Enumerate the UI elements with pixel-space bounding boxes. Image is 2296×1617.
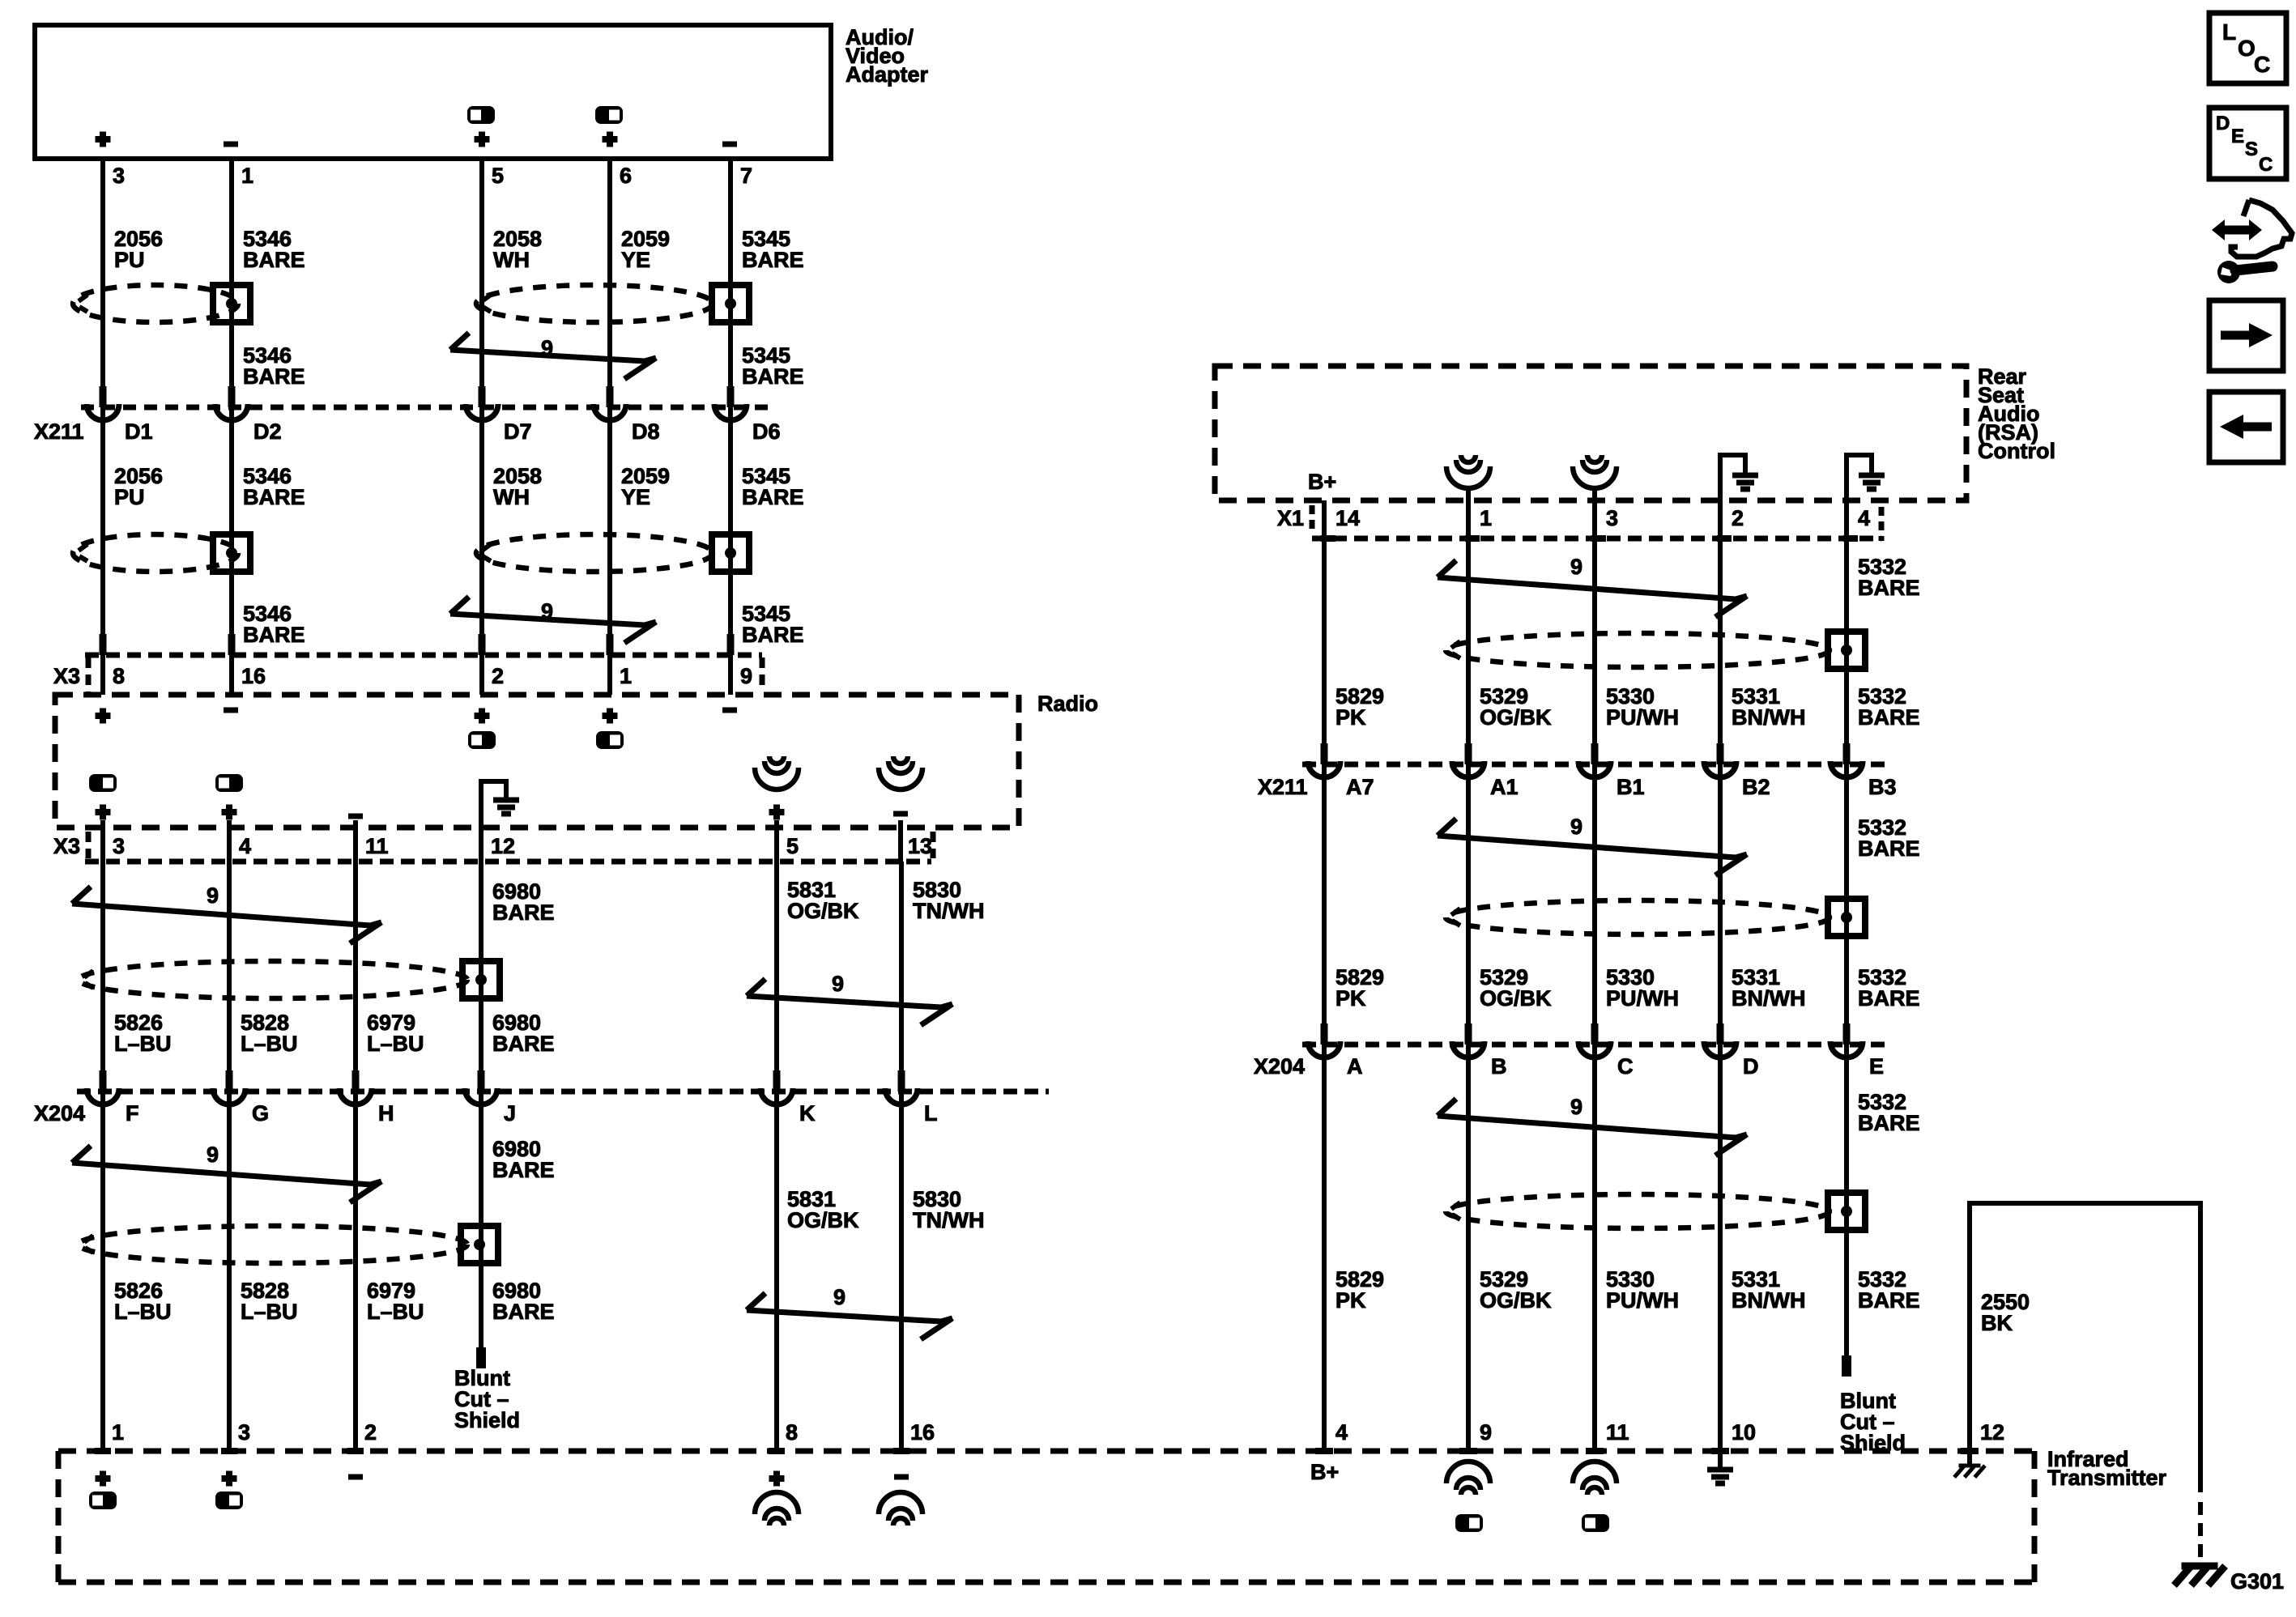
shield ellipse radio FGH row xyxy=(79,961,467,998)
svg-text:BARE: BARE xyxy=(742,364,804,389)
svg-text:L–BU: L–BU xyxy=(241,1032,298,1056)
svg-text:BARE: BARE xyxy=(243,623,305,647)
svg-text:C: C xyxy=(2259,154,2273,176)
component Infrared Transmitter dashed box bottom edge xyxy=(58,1580,2034,1585)
terminal - adapter pin 7 xyxy=(722,142,737,147)
svg-text:X3: X3 xyxy=(53,834,80,858)
svg-text:Control: Control xyxy=(1978,439,2055,463)
connector X211 right pin B3 cup xyxy=(1830,761,1863,777)
connector X3 top dashed line xyxy=(85,653,762,658)
terminal + radio X3 pin 2 xyxy=(475,709,490,724)
wire A X211 to X204 xyxy=(1322,764,1327,1045)
svg-text:14: 14 xyxy=(1335,506,1360,530)
wire D crossing tick at X1 xyxy=(1717,535,1732,542)
wire D X204 to IR box xyxy=(1718,1045,1723,1451)
wire H column X3 to X204 xyxy=(353,862,358,1091)
shield splice square on 6980 BARE row1 xyxy=(462,961,500,998)
svg-text:K: K xyxy=(799,1101,816,1126)
svg-text:9: 9 xyxy=(207,883,219,908)
svg-text:9: 9 xyxy=(833,1285,846,1309)
connector X3 top right bracket xyxy=(760,657,765,690)
wire H crossing tick at IR box xyxy=(347,1448,364,1454)
wire E X204 to blunt cut xyxy=(1844,1045,1849,1359)
wire D crossing tick at IR box xyxy=(1711,1448,1729,1454)
wire 753 adapter to X211 xyxy=(607,159,612,407)
wire 595 X211 to X3 xyxy=(479,407,484,655)
wire B crossing tick at X1 xyxy=(1465,535,1480,542)
svg-text:9: 9 xyxy=(207,1143,219,1167)
svg-text:10: 10 xyxy=(1732,1420,1756,1445)
wire 902 X211 to X3 xyxy=(728,407,733,655)
svg-text:X204: X204 xyxy=(1254,1054,1305,1079)
wire 127 adapter to X211 xyxy=(100,159,105,407)
svg-text:2: 2 xyxy=(1732,506,1744,530)
svg-text:11: 11 xyxy=(365,834,389,858)
chassis ground G301 xyxy=(2182,1563,2218,1570)
svg-text:A1: A1 xyxy=(1490,775,1519,799)
terminal + adapter pin 5 xyxy=(475,132,490,147)
svg-text:3: 3 xyxy=(1606,506,1618,530)
connector X204 pin J cup xyxy=(465,1088,497,1104)
svg-text:E: E xyxy=(2231,126,2244,147)
speaker polarity icon IR pin 9 xyxy=(1455,1514,1483,1532)
wire 595 adapter to X211 xyxy=(479,159,484,407)
legend LOC box xyxy=(2209,13,2286,83)
speaker polarity icon IR pin 11 xyxy=(1582,1514,1609,1532)
svg-text:PU/WH: PU/WH xyxy=(1606,986,1679,1011)
wire stub X3 to radio box at 753 xyxy=(607,655,612,695)
svg-text:L–BU: L–BU xyxy=(114,1032,172,1056)
terminal + radio X3 pin 1 xyxy=(603,709,618,724)
svg-text:J: J xyxy=(504,1101,516,1126)
wire L column X204 to IR box xyxy=(899,1091,904,1451)
connector X204 pin L cup xyxy=(885,1088,918,1104)
svg-text:X1: X1 xyxy=(1277,506,1304,530)
shield splice square right row1 xyxy=(1828,632,1865,669)
wire crossing tick pin 12 xyxy=(1961,1448,1979,1454)
svg-text:D8: D8 xyxy=(632,419,660,444)
legend forward arrow box xyxy=(2209,300,2283,371)
wire C X211 to X204 xyxy=(1592,764,1597,1045)
svg-text:L–BU: L–BU xyxy=(114,1300,172,1324)
connector X211 pin D8 cup xyxy=(594,404,626,420)
wire 127 X211 to X3 xyxy=(100,407,105,655)
wire stub X3 to radio box at 286 xyxy=(229,655,234,695)
svg-text:4: 4 xyxy=(1335,1420,1348,1445)
svg-text:BARE: BARE xyxy=(1858,705,1920,730)
connector X204 pin H cup xyxy=(339,1088,372,1104)
antenna symbol RSA pin 1 xyxy=(1461,455,1476,462)
svg-text:OG/BK: OG/BK xyxy=(787,1208,859,1232)
wire E crossing tick at X1 xyxy=(1843,535,1858,542)
wire B crossing tick at IR box xyxy=(1459,1448,1477,1454)
svg-text:9: 9 xyxy=(1570,555,1582,579)
svg-text:9: 9 xyxy=(832,972,844,996)
svg-text:D6: D6 xyxy=(752,419,781,444)
terminal - IR pin 2 xyxy=(348,1474,363,1480)
connector X1 right bracket xyxy=(1879,507,1885,541)
shield ellipse right row1 xyxy=(1446,633,1830,667)
wire 286 adapter to X211 xyxy=(229,159,234,407)
svg-text:16: 16 xyxy=(910,1420,935,1445)
svg-text:BARE: BARE xyxy=(1858,1111,1920,1135)
svg-text:TN/WH: TN/WH xyxy=(913,1208,984,1232)
terminal + radio pin 4 xyxy=(222,805,237,820)
connector X1 dashed line xyxy=(1312,536,1881,542)
svg-text:PK: PK xyxy=(1335,705,1366,730)
speaker polarity icon radio pin 1 xyxy=(596,731,624,749)
svg-text:O: O xyxy=(2238,36,2256,61)
shield ellipse row1 right trio xyxy=(476,285,713,322)
wire stub X3 to radio box at 127 xyxy=(100,655,105,695)
component Infrared Transmitter dashed box left edge xyxy=(56,1451,62,1582)
connector X211 pin D7 cup xyxy=(466,404,498,420)
wire G column X204 to IR box xyxy=(227,1091,232,1451)
shield ellipse right row3 xyxy=(1446,1194,1830,1228)
svg-text:4: 4 xyxy=(1858,506,1870,530)
svg-text:BARE: BARE xyxy=(742,248,804,272)
wire stub inside radio at 283 xyxy=(227,820,232,862)
terminal - radio X3 pin 9 xyxy=(722,708,737,713)
svg-text:BARE: BARE xyxy=(492,1032,555,1056)
wire A B+ RSA to X211 xyxy=(1322,500,1327,764)
svg-text:Adapter: Adapter xyxy=(846,62,929,87)
wire dashed drop to G301 xyxy=(2198,1502,2203,1560)
terminal - adapter pin 1 xyxy=(224,142,238,147)
connector X211 right pin B2 cup xyxy=(1704,761,1736,777)
svg-text:D2: D2 xyxy=(253,419,282,444)
connector X204 left dashed line xyxy=(77,1089,1049,1095)
svg-text:BARE: BARE xyxy=(492,1300,555,1324)
connector X3 top left bracket xyxy=(86,657,92,696)
svg-text:B+: B+ xyxy=(1310,1460,1339,1484)
svg-text:PU/WH: PU/WH xyxy=(1606,705,1679,730)
wire L column X3 to X204 xyxy=(899,862,904,1091)
svg-text:16: 16 xyxy=(241,664,266,688)
svg-text:B+: B+ xyxy=(1308,470,1336,494)
wire E X211 to X204 xyxy=(1844,764,1849,1045)
svg-text:X211: X211 xyxy=(1258,775,1308,799)
connector X211 right dashed line xyxy=(1302,762,1889,768)
wire 286 X211 to X3 xyxy=(229,407,234,655)
svg-text:OG/BK: OG/BK xyxy=(1480,986,1552,1011)
svg-text:L–BU: L–BU xyxy=(367,1300,424,1324)
speaker polarity icon IR pin 1 xyxy=(89,1491,117,1509)
wire D X211 to X204 xyxy=(1718,764,1723,1045)
svg-text:BK: BK xyxy=(1981,1311,2013,1335)
terminal + adapter pin 6 xyxy=(603,132,618,147)
svg-text:1: 1 xyxy=(620,664,632,688)
svg-text:YE: YE xyxy=(621,248,650,272)
svg-text:BARE: BARE xyxy=(243,248,305,272)
wire J column X3 to X204 xyxy=(479,862,483,1091)
legend DESC box xyxy=(2209,108,2286,179)
connector X204 right pin C cup xyxy=(1578,1041,1611,1057)
svg-text:Shield: Shield xyxy=(454,1408,520,1432)
wire stub inside radio at 127 xyxy=(100,820,105,862)
chassis ground at IR pin 12 xyxy=(1959,1464,1981,1468)
svg-text:X3: X3 xyxy=(53,664,80,688)
svg-text:S: S xyxy=(2245,138,2258,160)
svg-text:PU/WH: PU/WH xyxy=(1606,1288,1679,1313)
wire B RSA to X211 xyxy=(1466,490,1471,764)
shield splice square row1 on 5346 BARE xyxy=(213,285,250,322)
svg-text:9: 9 xyxy=(1570,1095,1582,1119)
svg-text:TN/WH: TN/WH xyxy=(913,899,984,923)
wire stub X3 to radio box at 595 xyxy=(479,655,484,695)
wire J column X204 to blunt cut xyxy=(479,1091,483,1351)
connector X204 pin G cup xyxy=(213,1088,245,1104)
svg-text:5: 5 xyxy=(492,164,504,188)
svg-text:3: 3 xyxy=(113,164,125,188)
svg-text:12: 12 xyxy=(1980,1420,2004,1445)
svg-text:BARE: BARE xyxy=(1858,1288,1920,1313)
svg-text:D7: D7 xyxy=(504,419,532,444)
terminal + radio pin 5 xyxy=(769,805,785,820)
wire L crossing tick at IR box xyxy=(893,1448,909,1454)
svg-text:X211: X211 xyxy=(34,419,84,444)
svg-text:BARE: BARE xyxy=(492,900,555,925)
connector X204 right dashed line xyxy=(1302,1042,1889,1048)
svg-text:7: 7 xyxy=(740,164,752,188)
connector X211 pin D1 cup xyxy=(87,404,119,420)
wire D RSA to X211 xyxy=(1718,538,1723,764)
legend diagnostic icon double arrow xyxy=(2223,226,2251,235)
svg-text:PK: PK xyxy=(1335,1288,1366,1313)
terminal + radio pin 3 xyxy=(96,805,111,820)
speaker polarity icon IR pin 3 xyxy=(215,1491,243,1509)
connector X204 right pin D cup xyxy=(1704,1041,1736,1057)
legend diagnostic icon part outline xyxy=(2231,200,2292,257)
wire G crossing tick at IR box xyxy=(221,1448,237,1454)
speaker polarity icon radio pin 2 xyxy=(468,731,496,749)
terminal + radio X3 pin 8 xyxy=(96,709,111,724)
svg-text:YE: YE xyxy=(621,485,650,509)
svg-text:BARE: BARE xyxy=(742,485,804,509)
terminal + IR pin 1 xyxy=(96,1471,111,1487)
antenna symbol radio pin 5 xyxy=(769,756,784,764)
shield ellipse row2 left pair xyxy=(73,534,238,572)
terminal + IR pin 8 xyxy=(769,1471,785,1487)
wire C crossing tick at IR box xyxy=(1586,1448,1604,1454)
shield ellipse row1 left pair xyxy=(73,285,238,322)
wire 2550 BK loop xyxy=(1970,1203,2200,1492)
wire K column X3 to X204 xyxy=(774,862,779,1091)
svg-text:C: C xyxy=(2254,52,2270,77)
svg-text:1: 1 xyxy=(241,164,253,188)
svg-text:5: 5 xyxy=(786,834,799,858)
terminal + IR pin 3 xyxy=(222,1471,237,1487)
connector X211 right pin A1 cup xyxy=(1452,761,1485,777)
wire E RSA to X211 xyxy=(1844,538,1849,764)
svg-text:BARE: BARE xyxy=(243,364,305,389)
wire B X211 to X204 xyxy=(1466,764,1471,1045)
svg-text:D: D xyxy=(2216,113,2230,134)
wire A crossing tick at IR box xyxy=(1315,1448,1333,1454)
svg-text:2: 2 xyxy=(364,1420,377,1445)
svg-text:9: 9 xyxy=(740,664,752,688)
ground symbol IR pin 10 xyxy=(1718,1451,1723,1469)
svg-text:H: H xyxy=(378,1101,394,1126)
component Radio dashed box xyxy=(55,695,1019,828)
antenna symbol IR pin 9 xyxy=(1461,1487,1476,1495)
svg-text:B1: B1 xyxy=(1617,775,1645,799)
svg-text:3: 3 xyxy=(238,1420,250,1445)
shield splice square row1 on 5345 BARE xyxy=(712,285,749,322)
svg-text:9: 9 xyxy=(1570,815,1582,839)
wire K column X204 to IR box xyxy=(774,1091,779,1451)
antenna symbol IR pin 11 xyxy=(1587,1487,1602,1495)
connector X204 pin F cup xyxy=(87,1088,119,1104)
wire stub X3 to radio box at 902 xyxy=(728,655,733,695)
connector X211 pin D6 cup xyxy=(714,404,747,420)
svg-text:D: D xyxy=(1743,1054,1759,1079)
svg-text:13: 13 xyxy=(908,834,932,858)
svg-text:L–BU: L–BU xyxy=(367,1032,424,1056)
shield splice square on 6980 BARE row2 xyxy=(461,1226,498,1263)
svg-text:A: A xyxy=(1347,1054,1363,1079)
connector X3 bottom right bracket xyxy=(931,832,936,858)
connector X211 right pin A7 cup xyxy=(1308,761,1340,777)
connector X3 bottom left bracket xyxy=(86,832,92,858)
connector X3 bottom dashed line xyxy=(85,859,931,865)
svg-text:BN/WH: BN/WH xyxy=(1732,1288,1805,1313)
ground symbol RSA pin 2 xyxy=(1718,453,1723,538)
svg-text:L: L xyxy=(924,1101,938,1126)
connector X211 right pin B1 cup xyxy=(1578,761,1611,777)
wire C crossing tick at X1 xyxy=(1591,535,1606,542)
svg-text:PK: PK xyxy=(1335,986,1366,1011)
svg-text:L: L xyxy=(2222,19,2236,45)
svg-text:OG/BK: OG/BK xyxy=(1480,1288,1552,1313)
wire stub inside radio at 959 xyxy=(774,820,779,862)
shield ellipse right row2 xyxy=(1446,900,1830,934)
legend back arrow box xyxy=(2209,392,2283,462)
svg-text:B2: B2 xyxy=(1742,775,1770,799)
svg-text:OG/BK: OG/BK xyxy=(1480,705,1552,730)
ground symbol RSA pin 4 xyxy=(1844,453,1849,538)
wire H column X204 to IR box xyxy=(353,1091,358,1451)
connector X1 left bracket xyxy=(1310,505,1315,533)
shield splice square right row3 xyxy=(1828,1193,1865,1230)
svg-text:X204: X204 xyxy=(34,1101,85,1126)
shield splice square row2 on 5346 BARE xyxy=(213,534,250,572)
wire C RSA to X211 xyxy=(1592,490,1597,764)
wire F column X204 to IR box xyxy=(100,1091,105,1451)
shield ellipse bottom FGH row xyxy=(79,1226,467,1263)
svg-text:OG/BK: OG/BK xyxy=(787,899,859,923)
svg-text:BARE: BARE xyxy=(742,623,804,647)
terminal + adapter pin 3 xyxy=(96,132,111,147)
svg-text:12: 12 xyxy=(491,834,515,858)
svg-text:1: 1 xyxy=(1480,506,1492,530)
svg-text:Radio: Radio xyxy=(1037,691,1098,716)
svg-text:PU: PU xyxy=(114,485,145,509)
wire G column X3 to X204 xyxy=(227,862,232,1091)
svg-text:F: F xyxy=(126,1101,139,1126)
connector X204 right pin B cup xyxy=(1452,1041,1485,1057)
svg-text:8: 8 xyxy=(786,1420,798,1445)
svg-text:BARE: BARE xyxy=(243,485,305,509)
svg-text:BARE: BARE xyxy=(1858,986,1920,1011)
connector X211 left dashed line xyxy=(81,405,771,411)
connector X204 right pin E cup xyxy=(1830,1041,1863,1057)
terminal - radio pin 13 xyxy=(893,811,908,817)
wire B X204 to IR box xyxy=(1466,1045,1471,1451)
wire F crossing tick at IR box xyxy=(95,1448,111,1454)
svg-text:C: C xyxy=(1617,1054,1634,1079)
svg-text:B: B xyxy=(1491,1054,1507,1079)
svg-text:WH: WH xyxy=(493,248,530,272)
connector X211 pin D2 cup xyxy=(215,404,248,420)
svg-text:WH: WH xyxy=(493,485,530,509)
svg-text:G: G xyxy=(252,1101,269,1126)
wire K crossing tick at IR box xyxy=(769,1448,785,1454)
svg-text:BARE: BARE xyxy=(1858,836,1920,861)
antenna symbol radio pin 13 xyxy=(893,756,908,764)
speaker polarity icon radio pin 3 xyxy=(89,774,117,792)
svg-text:6: 6 xyxy=(620,164,632,188)
component Infrared Transmitter dashed box right edge xyxy=(2032,1451,2038,1582)
svg-text:2: 2 xyxy=(492,664,504,688)
svg-text:A7: A7 xyxy=(1346,775,1374,799)
svg-text:BN/WH: BN/WH xyxy=(1732,705,1805,730)
svg-text:BARE: BARE xyxy=(492,1158,555,1182)
wire A X204 to IR box xyxy=(1322,1045,1327,1451)
antenna symbol IR pin 16 xyxy=(893,1518,908,1526)
terminal - IR pin 16 xyxy=(894,1474,909,1480)
terminal - radio pin 11 xyxy=(348,814,363,819)
speaker polarity icon adapter pin 5 xyxy=(467,106,495,124)
svg-text:9: 9 xyxy=(1480,1420,1492,1445)
connector X204 pin K cup xyxy=(760,1088,793,1104)
terminal - radio X3 pin 16 xyxy=(224,708,238,713)
svg-text:D1: D1 xyxy=(125,419,153,444)
svg-text:8: 8 xyxy=(113,664,125,688)
ground symbol radio pin 12 xyxy=(479,779,483,862)
svg-text:BN/WH: BN/WH xyxy=(1732,986,1805,1011)
svg-text:4: 4 xyxy=(239,834,251,858)
svg-text:PU: PU xyxy=(114,248,145,272)
svg-text:BARE: BARE xyxy=(1858,576,1920,600)
antenna symbol RSA pin 3 xyxy=(1587,455,1602,462)
wire stub inside radio at 439 xyxy=(353,820,358,862)
wire 902 adapter to X211 xyxy=(728,159,733,407)
shield splice square right row2 xyxy=(1828,899,1865,936)
shield splice square row2 on 5345 BARE xyxy=(712,534,749,572)
svg-text:G301: G301 xyxy=(2230,1569,2284,1594)
wire C X204 to IR box xyxy=(1592,1045,1597,1451)
svg-text:E: E xyxy=(1869,1054,1884,1079)
speaker polarity icon radio pin 4 xyxy=(215,774,243,792)
svg-text:B3: B3 xyxy=(1868,775,1897,799)
wire A crossing tick at X1 xyxy=(1321,535,1335,542)
component Rear Seat Audio RSA Control dashed box xyxy=(1215,366,1966,500)
wire 753 X211 to X3 xyxy=(607,407,612,655)
svg-text:3: 3 xyxy=(113,834,125,858)
antenna symbol IR pin 8 xyxy=(769,1518,784,1526)
wire stub inside radio at 1112 xyxy=(898,820,903,862)
wire F column X3 to X204 xyxy=(100,862,105,1091)
shield ellipse row2 right trio xyxy=(476,534,713,572)
connector X204 right pin A cup xyxy=(1308,1041,1340,1057)
legend diagnostic icon wrench xyxy=(2217,261,2240,283)
svg-text:Transmitter: Transmitter xyxy=(2047,1466,2167,1490)
component Infrared Transmitter dashed box top edge xyxy=(58,1449,2034,1454)
svg-text:11: 11 xyxy=(1606,1420,1629,1445)
svg-text:1: 1 xyxy=(112,1420,124,1445)
speaker polarity icon adapter pin 6 xyxy=(595,106,623,124)
